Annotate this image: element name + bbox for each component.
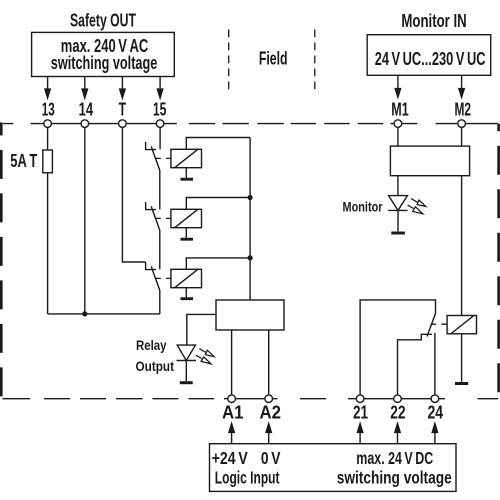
terminal 13 — [44, 120, 52, 128]
wire terminal T column — [122, 127, 145, 262]
relay drive box K2 top link — [186, 198, 250, 210]
arrow to terminal 13 — [45, 77, 50, 99]
relay drive box K2 — [171, 209, 202, 227]
contact K2 dashed link — [156, 217, 172, 219]
contact K3 seat — [146, 262, 156, 270]
relay drive box K3 top link — [186, 258, 250, 269]
svg-text:Output: Output — [136, 358, 175, 374]
LED D2 ground lead — [397, 210, 399, 231]
svg-text:Logic Input: Logic Input — [215, 467, 280, 487]
svg-text:24 V UC...230 V UC: 24 V UC...230 V UC — [375, 48, 486, 69]
terminal 24 — [431, 395, 439, 403]
LED D1 Relay Output — [177, 345, 197, 360]
svg-text:T: T — [119, 98, 127, 119]
wire terminal 14 column — [84, 127, 86, 314]
contact K1 blade — [151, 146, 160, 209]
wire bus to relay coil — [249, 138, 251, 301]
relay drive box K1 top link — [186, 138, 250, 150]
svg-text:22: 22 — [390, 402, 405, 423]
wire M1 to block — [397, 127, 399, 146]
junction dot bus/K3 — [248, 255, 253, 260]
terminal 15 — [156, 120, 164, 128]
terminal M1 — [394, 120, 402, 128]
monitor input block — [390, 146, 469, 176]
arrow to A1 — [229, 424, 234, 444]
terminal A2 — [265, 395, 273, 403]
terminal 22 — [394, 395, 402, 403]
Safety OUT voltage box — [32, 32, 175, 76]
ground bar K1 — [181, 178, 194, 181]
dashed enclosure right border — [497, 124, 500, 399]
svg-text:15: 15 — [153, 98, 167, 119]
contact K4 NO seat from 22 — [398, 334, 433, 395]
terminal 14 — [81, 120, 89, 128]
svg-text:switching voltage: switching voltage — [51, 52, 158, 73]
svg-text:+24 V: +24 V — [212, 448, 248, 468]
dashed enclosure top border — [3, 123, 498, 125]
wire terminal 13 column — [47, 127, 49, 314]
svg-text:Field: Field — [259, 48, 288, 69]
svg-text:A2: A2 — [260, 402, 282, 423]
contact K4 blade — [427, 314, 436, 337]
wire block to LED D2 — [397, 176, 399, 196]
svg-text:Monitor: Monitor — [343, 198, 383, 214]
contact K1 seat — [146, 142, 156, 150]
wire terminal 15 column stub — [159, 127, 161, 149]
LED D1 ground lead — [185, 361, 187, 382]
relay drive box K4 ground lead — [461, 334, 463, 382]
arrow to terminal M1 — [395, 75, 400, 97]
arrow to 24 — [432, 424, 437, 444]
relay drive box K4 — [447, 316, 476, 334]
svg-text:21: 21 — [353, 402, 368, 423]
ground bar K2 — [181, 238, 194, 241]
field boundary dashed line right — [314, 30, 316, 94]
field boundary dashed line left — [228, 30, 230, 94]
svg-text:max. 24 V DC: max. 24 V DC — [356, 448, 433, 468]
logic input box — [210, 444, 457, 492]
fuse F1 body — [43, 150, 53, 173]
dashed enclosure left border — [0, 122, 3, 398]
contact K3 dashed link — [156, 277, 172, 279]
wire 24 stub — [434, 333, 436, 395]
relay drive box K1 — [171, 149, 202, 167]
svg-text:Monitor IN: Monitor IN — [401, 10, 466, 31]
svg-text:0 V: 0 V — [261, 448, 281, 468]
ground bar LED D1 — [180, 381, 193, 384]
ground bar K4 — [455, 382, 468, 385]
wire 21 rail — [360, 300, 435, 395]
arrow to terminal 15 — [157, 77, 162, 99]
relay coil block — [216, 300, 284, 330]
terminal T — [119, 120, 127, 128]
junction dot 14/bottom — [82, 311, 87, 316]
wire LED branch — [187, 314, 216, 345]
relay drive box K3 — [171, 269, 202, 287]
LED D1 light arrow 1 — [199, 349, 214, 357]
dashed enclosure bottom border — [3, 398, 499, 400]
arrow to A2 — [266, 424, 271, 444]
contact K4 dashed link — [431, 323, 447, 325]
LED D2 light arrow 2 — [408, 205, 423, 214]
wire A2 — [268, 330, 270, 395]
wire M2 to block — [461, 127, 463, 146]
svg-text:A1: A1 — [222, 402, 244, 423]
relay drive box K2 ground lead — [185, 228, 187, 238]
svg-text:24: 24 — [428, 402, 444, 423]
svg-text:switching voltage: switching voltage — [337, 467, 452, 487]
wire A1 — [231, 330, 233, 395]
terminal 21 — [356, 395, 364, 403]
relay drive box K3 ground lead — [185, 288, 187, 298]
arrow to terminal T — [120, 77, 125, 99]
svg-text:M2: M2 — [455, 99, 472, 120]
contact K2 blade — [151, 206, 160, 269]
arrow to 22 — [395, 424, 400, 444]
junction dot bus/K2 — [248, 195, 253, 200]
wire bottom common 13-14-contact — [48, 313, 160, 315]
LED D1 light arrow 2 — [196, 355, 211, 364]
ground bar K3 — [181, 297, 194, 300]
svg-text:13: 13 — [42, 98, 55, 119]
arrow to terminal M2 — [459, 75, 464, 97]
contact K1 dashed link — [156, 157, 172, 159]
relay drive box K1 ground lead — [185, 168, 187, 178]
contact K3 blade — [151, 266, 160, 314]
svg-text:5A T: 5A T — [10, 150, 37, 171]
svg-text:14: 14 — [79, 98, 94, 119]
wire M2 column to coil — [461, 176, 463, 316]
svg-text:Safety OUT: Safety OUT — [70, 10, 136, 31]
arrow to 21 — [357, 424, 362, 444]
contact K2 seat — [146, 202, 156, 210]
arrow to terminal 14 — [82, 77, 87, 99]
LED D2 Monitor — [388, 196, 407, 211]
svg-text:Relay: Relay — [136, 337, 167, 353]
terminal A1 — [228, 395, 236, 403]
Monitor IN voltage box — [367, 35, 491, 76]
terminal M2 — [458, 120, 466, 128]
LED D2 light arrow 1 — [411, 199, 426, 207]
ground bar LED D2 — [391, 232, 405, 235]
svg-text:M1: M1 — [391, 99, 408, 120]
